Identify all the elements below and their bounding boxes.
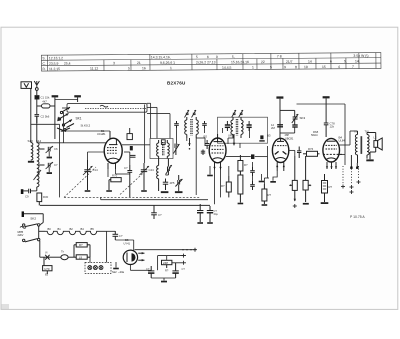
- bus lower left pair: [40, 204, 210, 206]
- svg-text:S.: S.: [42, 56, 45, 60]
- svg-text:B0: B0: [48, 227, 52, 231]
- tube B1 UCH81: [97, 129, 122, 169]
- svg-text:5,: 5,: [232, 55, 235, 59]
- heater dotted column 2: [350, 166, 354, 194]
- dashed gang line left: [64, 167, 200, 197]
- print code P 10.75 A: [350, 215, 365, 219]
- svg-text:Sk2: Sk2: [112, 270, 117, 274]
- voltage selector box V: [21, 82, 32, 89]
- table row S text: [42, 54, 368, 61]
- ground under R66: [262, 204, 268, 206]
- svg-text:5,: 5,: [344, 59, 347, 63]
- svg-text:14,: 14,: [355, 59, 360, 63]
- trimmer C47: [175, 175, 182, 187]
- svg-text:23,5,9: 23,5,9: [49, 62, 59, 66]
- resistor R66: [262, 184, 272, 204]
- capacitor right of T2 (bold): [247, 121, 252, 131]
- ground under R7: [106, 190, 112, 192]
- wire B4 anode to transformer: [297, 104, 358, 165]
- svg-text:21/7: 21/7: [286, 60, 293, 64]
- ground under R74: [321, 202, 329, 204]
- resistor R74: [322, 174, 333, 202]
- ground under lower osc: [161, 191, 169, 193]
- svg-text:R?: R?: [268, 193, 272, 197]
- tube B3 UBC81: [267, 134, 294, 172]
- svg-text:22: 22: [261, 60, 265, 64]
- table row R text: [42, 65, 354, 71]
- svg-text:12k: 12k: [330, 125, 335, 129]
- capacitor bar K1: [52, 95, 78, 139]
- svg-text:14: 14: [308, 60, 312, 64]
- svg-text:9: 9: [216, 55, 218, 59]
- svg-text:11,2,15: 11,2,15: [49, 67, 60, 71]
- svg-text:R.: R.: [42, 67, 45, 71]
- svg-text:24P: 24P: [163, 261, 168, 265]
- svg-text:4: 4: [338, 65, 340, 69]
- svg-text:U70: U70: [44, 267, 50, 271]
- svg-text:9,6,26,6 1: 9,6,26,6 1: [160, 61, 175, 65]
- svg-text:B3: B3: [267, 134, 271, 138]
- volume control cap: [297, 147, 301, 159]
- capacitor C9: [25, 189, 37, 199]
- svg-text:12,13,1,2: 12,13,1,2: [49, 56, 63, 60]
- T1 secondary drop with arrow: [188, 138, 190, 150]
- resistor R76 horizontal: [303, 147, 320, 156]
- resistor R7 (horizontal): [109, 174, 121, 191]
- output transformer T70: [354, 130, 370, 164]
- IF transformer S60: [185, 117, 199, 138]
- T2 primary AGC arrow: [233, 134, 236, 146]
- svg-text:T9: T9: [354, 130, 358, 134]
- svg-text:R?: R?: [165, 269, 169, 273]
- capacitor left of T1: [174, 121, 179, 128]
- padder rect in osc box: [161, 140, 165, 145]
- svg-text:14,3,15,4,16,: 14,3,15,4,16,: [151, 55, 171, 59]
- capacitor C16: [124, 165, 132, 197]
- switch SK2: [18, 214, 46, 258]
- feedthrough blob near B3 grid: [259, 135, 264, 141]
- svg-text:R30: R30: [43, 195, 49, 199]
- capacitor under lower osc: [163, 179, 175, 191]
- svg-text:10: 10: [304, 65, 308, 69]
- pins B4 with arrows: [326, 162, 337, 169]
- svg-text:C?: C?: [158, 213, 162, 217]
- electrolytic C101: [146, 266, 154, 278]
- heater chain loops B0-B5: [45, 227, 115, 263]
- grid cap B4: [323, 96, 330, 122]
- svg-text:C?: C?: [119, 234, 123, 238]
- coil S14: [34, 139, 42, 191]
- electrolytic C102: [172, 263, 185, 278]
- svg-text:L9: L9: [79, 255, 83, 259]
- dial lamps: [88, 257, 103, 269]
- wire grid B1: [37, 128, 110, 160]
- wire rectifier cathode to C101: [130, 265, 151, 271]
- wire B2 B3 couplings: [226, 146, 295, 197]
- wire C75 return: [280, 127, 295, 137]
- tuning capacitor C14: [83, 160, 98, 190]
- ground under C6: [47, 157, 52, 159]
- lower osc trimmer: [166, 159, 172, 176]
- resistor R62: [238, 171, 243, 203]
- svg-text:C2 5k6: C2 5k6: [41, 115, 50, 119]
- label 12P near grid cap: [271, 123, 276, 130]
- svg-text:7: 7: [352, 65, 354, 69]
- svg-text:22kV: 22kV: [18, 233, 24, 237]
- tube B2 UF89: [204, 134, 235, 170]
- potentiometer R71: [303, 156, 311, 202]
- svg-text:9: 9: [284, 65, 286, 69]
- ground under C14: [85, 190, 91, 192]
- svg-text:3-5o W (\): 3-5o W (\): [353, 54, 368, 58]
- capacitor right of T1: [202, 121, 207, 128]
- trimmer SK3 branch: [280, 110, 306, 123]
- rectifier B5 UY41: [123, 238, 137, 265]
- svg-text:B4: B4: [81, 227, 85, 231]
- svg-text:B2: B2: [70, 227, 74, 231]
- loudspeaker: [367, 133, 382, 160]
- svg-text:5: 5: [128, 67, 130, 71]
- filter caps C85 C86: [197, 204, 218, 222]
- svg-text:15: 15: [322, 65, 326, 69]
- capacitor C1 (block): [35, 96, 50, 115]
- terminal bar (chassis tap): [21, 189, 29, 194]
- svg-text:3: 3: [113, 61, 115, 65]
- svg-text:48P: 48P: [285, 133, 290, 137]
- svg-text:25,4: 25,4: [64, 62, 71, 66]
- svg-text:R?: R?: [329, 185, 333, 189]
- fuse: [40, 251, 54, 260]
- svg-text:P 10.75 A: P 10.75 A: [350, 215, 365, 219]
- svg-text:B1: B1: [58, 227, 62, 231]
- capacitor C90: [151, 205, 162, 219]
- coil S13: [28, 139, 34, 160]
- svg-text:C44: C44: [149, 168, 155, 172]
- resistor box right of B1: [127, 128, 132, 140]
- capacitor C63: [250, 167, 255, 176]
- resistor R90 box: [74, 243, 90, 248]
- tuning capacitor C44: [140, 163, 155, 190]
- ground B3 left: [270, 171, 277, 183]
- wire verticals to lower bus: [60, 124, 221, 204]
- dashed gang line mid: [120, 171, 146, 195]
- svg-text:C9: C9: [25, 195, 29, 199]
- HT rail row3: [172, 261, 186, 265]
- svg-text:R?: R?: [244, 163, 248, 167]
- label R68: [311, 130, 319, 137]
- svg-text:4k7: 4k7: [42, 100, 47, 104]
- wire heater return: [166, 256, 168, 261]
- potentiometer R67: [289, 156, 297, 202]
- IF transformer S62: [231, 117, 243, 138]
- ground under R71: [303, 203, 309, 205]
- svg-text:C?: C?: [146, 267, 150, 271]
- svg-text:44µ: 44µ: [214, 212, 219, 216]
- svg-text:C.: C.: [42, 62, 45, 66]
- svg-text:1: 1: [170, 66, 172, 70]
- ground power filter: [151, 278, 175, 282]
- capacitor C78: [324, 122, 335, 138]
- svg-text:16: 16: [142, 66, 146, 70]
- capacitor bar K2: [74, 95, 81, 102]
- capacitor C95: [113, 231, 123, 240]
- svg-text:2M: 2M: [271, 126, 276, 130]
- svg-text:4P5: 4P5: [170, 181, 175, 185]
- svg-text:15,16,26,16: 15,16,26,16: [231, 60, 249, 64]
- svg-text:2i,26,2 27,13: 2i,26,2 27,13: [196, 60, 216, 64]
- HT rail row2: [158, 254, 186, 271]
- grid cap line B3: [276, 96, 283, 138]
- trimmer pair above T1: [185, 110, 197, 118]
- capacitor C74 bold on grid line: [277, 125, 283, 127]
- ground under C44: [141, 190, 147, 192]
- ground under speaker: [366, 159, 373, 161]
- ground under C47: [175, 185, 183, 194]
- lower osc coil: [157, 159, 159, 192]
- svg-text:C?: C?: [124, 166, 128, 170]
- svg-text:14,4,5: 14,4,5: [222, 66, 232, 70]
- T1 secondary long drop: [196, 138, 205, 195]
- ground mid: [259, 174, 265, 182]
- ground B2 cathode: [207, 166, 213, 176]
- capacitor C64: [250, 181, 255, 190]
- svg-text:R?: R?: [79, 243, 83, 247]
- ground under S13: [28, 161, 34, 163]
- capacitor C2: [35, 115, 50, 124]
- oscillator coil S40: [157, 140, 159, 159]
- dial lamps dashed box: [85, 262, 111, 273]
- wire left bus: [31, 88, 60, 143]
- resistor R61: [238, 155, 248, 171]
- svg-text:5: 5: [270, 65, 272, 69]
- svg-text:Si.K0.2: Si.K0.2: [81, 124, 91, 128]
- resistor L90 box: [74, 245, 90, 260]
- heater dotted column 1: [341, 166, 345, 189]
- series blob cap between B2 B3: [251, 154, 254, 159]
- oscillator transformer shield box: [150, 139, 173, 159]
- ground lamp box: [112, 262, 125, 274]
- svg-text:6: 6: [207, 55, 209, 59]
- svg-text:B2X76U: B2X76U: [167, 81, 186, 86]
- blob cap right of B1: [130, 146, 136, 157]
- svg-text:SK1: SK1: [76, 117, 82, 121]
- svg-text:SK3: SK3: [300, 116, 306, 120]
- trimmer C7: [39, 162, 58, 172]
- ground under C7: [47, 172, 52, 174]
- svg-text:21: 21: [137, 61, 141, 65]
- svg-text:56kΩ: 56kΩ: [311, 133, 318, 137]
- trimmer right of osc box: [173, 144, 179, 156]
- svg-text:11,12: 11,12: [90, 67, 98, 71]
- svg-text:6: 6: [330, 60, 332, 64]
- svg-text:UY41: UY41: [124, 241, 131, 245]
- wire hf buses staircase: [62, 103, 170, 143]
- IF transformer S62 shield: [218, 117, 268, 143]
- resistor R58: [221, 176, 231, 197]
- oscillator coil S41: [163, 140, 170, 159]
- svg-text:7 8: 7 8: [277, 55, 282, 59]
- HT rail row1: [135, 248, 198, 252]
- mains lead-in bar: [22, 211, 44, 217]
- svg-text:R?: R?: [221, 184, 225, 188]
- band switch SK1: [57, 107, 91, 131]
- svg-text:83: 83: [45, 273, 48, 277]
- smoothing resistor 24P: [162, 260, 172, 272]
- svg-text:C?: C?: [182, 267, 186, 271]
- tube B4 UL84: [323, 136, 345, 163]
- ground under R62: [238, 203, 244, 205]
- thermal resistor (oval): [54, 250, 74, 260]
- svg-text:B5: B5: [91, 227, 95, 231]
- trimmer pair above T2: [232, 110, 244, 118]
- plus mark under R67: [293, 204, 297, 208]
- wire rectifier feed: [90, 215, 154, 257]
- svg-text:8: 8: [295, 65, 297, 69]
- antenna A1: [34, 81, 39, 95]
- svg-text:R76: R76: [308, 147, 314, 151]
- trimmer C6: [39, 146, 58, 156]
- rectifier output arrows: [138, 252, 144, 261]
- svg-text:UCH81: UCH81: [97, 132, 106, 136]
- table row C text: [42, 59, 359, 65]
- heater dotted column 3: [357, 166, 361, 184]
- resistor R3 (vertical box): [37, 193, 49, 205]
- ferrite rod box: [67, 103, 147, 112]
- chassis type label B2X76U: [167, 81, 186, 86]
- svg-text:UF89: UF89: [228, 134, 235, 138]
- svg-text:1: 1: [252, 66, 254, 70]
- plug pins under transformer: [350, 155, 358, 169]
- svg-text:UL84: UL84: [339, 139, 346, 143]
- resistor R1 (oval): [37, 100, 55, 108]
- wire return rail: [101, 197, 208, 199]
- ballast resistor U70: [43, 257, 52, 276]
- tube complement table: [41, 53, 381, 72]
- wire osc links: [124, 140, 168, 175]
- svg-text:~20a: ~20a: [118, 270, 125, 274]
- svg-text:C6: C6: [54, 147, 58, 151]
- capacitor left of T2 (bold): [225, 121, 230, 131]
- svg-text:C7: C7: [54, 163, 58, 167]
- cap left of B2: [205, 140, 210, 149]
- capacitor C75 bold on SK3 line: [292, 120, 297, 128]
- wire T1/T2 to tubes: [122, 128, 250, 148]
- svg-text:5: 5: [196, 55, 198, 59]
- ground filter caps: [197, 222, 212, 224]
- svg-text:SK2: SK2: [30, 217, 36, 221]
